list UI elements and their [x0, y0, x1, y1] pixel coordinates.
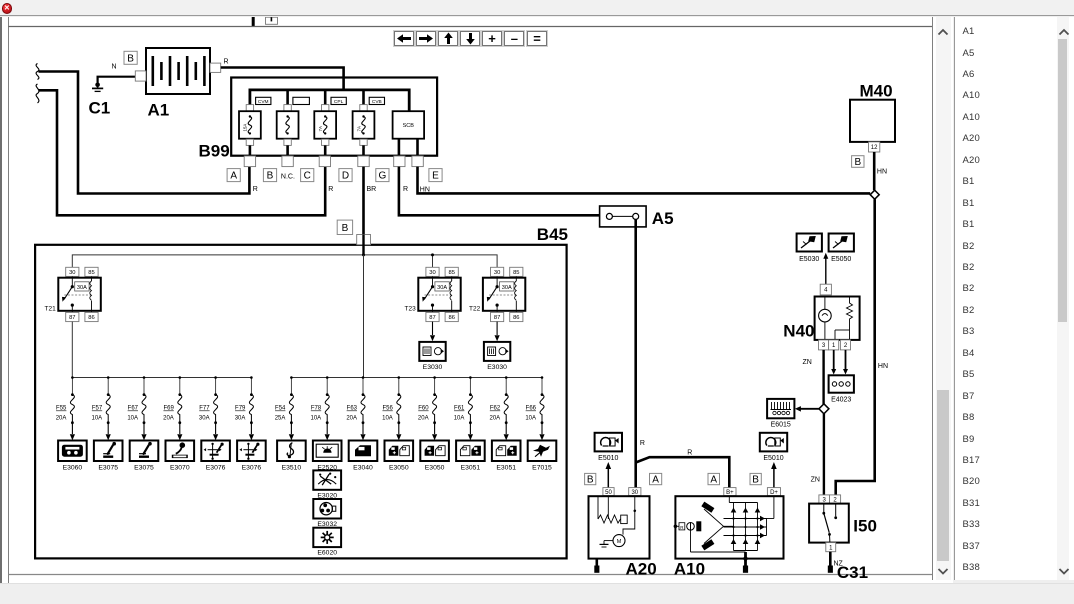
- wire stub below A20: [594, 559, 599, 573]
- svg-text:HN: HN: [878, 363, 888, 370]
- component E5030 (cigar lighter): [797, 234, 822, 252]
- wire - A20 pin 50 to E5010: [606, 462, 612, 488]
- label F79 30A: [235, 406, 246, 422]
- label F60 20A: [418, 406, 429, 422]
- svg-text:N: N: [112, 64, 117, 71]
- B99 output pin B: [282, 156, 293, 167]
- wire ZN - N40 pin 3 down: [822, 350, 824, 404]
- canvas inner border left: [8, 17, 9, 583]
- connector label B (A20): [585, 473, 596, 484]
- fuse F60 20A: [433, 376, 437, 424]
- svg-text:T21: T21: [45, 306, 57, 313]
- ground C1: [92, 83, 103, 92]
- wire/arrow F78 to E2520: [325, 423, 330, 441]
- starter motor A20: [589, 496, 650, 559]
- connector label G: [376, 169, 389, 182]
- B45 input pin (from B99 D): [357, 235, 371, 245]
- svg-text:30A: 30A: [199, 416, 210, 422]
- svg-text:C1: C1: [89, 99, 111, 118]
- fuse F77 30A: [214, 376, 218, 424]
- svg-text:E3075: E3075: [134, 465, 154, 472]
- svg-text:30A: 30A: [437, 285, 447, 291]
- svg-text:E7015: E7015: [532, 465, 552, 472]
- connector label B (A10): [750, 473, 761, 484]
- svg-text:87: 87: [429, 315, 435, 321]
- component list panel: [954, 17, 1074, 580]
- fuse F79 30A: [249, 376, 253, 424]
- svg-text:10A: 10A: [311, 416, 322, 422]
- component E3050 (fuse F56): [385, 441, 414, 462]
- svg-text:B: B: [587, 475, 594, 486]
- svg-text:E3051: E3051: [461, 465, 481, 472]
- svg-text:M: M: [617, 539, 622, 545]
- wire/arrow F61 to E3051: [468, 423, 473, 441]
- wire R - B99 pin G to connector A5: [399, 167, 607, 216]
- relay T23: [418, 267, 460, 321]
- svg-text:F66: F66: [526, 406, 537, 412]
- connector label D: [339, 169, 352, 182]
- component E5050 (cigar lighter): [829, 234, 854, 252]
- fuse F66 10A: [540, 376, 544, 424]
- M40 pin 12: [869, 142, 880, 152]
- I50 pin 2: [830, 495, 841, 504]
- wire (clipped at top edge): [252, 17, 255, 27]
- svg-text:10A: 10A: [92, 416, 103, 422]
- svg-text:T23: T23: [405, 306, 417, 313]
- component E5010 (horn, left): [595, 433, 622, 452]
- wire R - A5 down to A20 pin 30: [634, 219, 637, 487]
- svg-text:D: D: [342, 171, 349, 182]
- wire break squiggle 2: [36, 84, 39, 103]
- svg-text:F77: F77: [199, 406, 210, 412]
- svg-text:B+: B+: [726, 490, 734, 496]
- svg-text:C: C: [304, 171, 311, 182]
- label CVB: [369, 97, 384, 105]
- wire/arrow F77 to E3076: [213, 423, 218, 441]
- component E7015 (fuse F66): [528, 441, 557, 462]
- svg-text:B: B: [267, 171, 274, 182]
- svg-text:E3075: E3075: [98, 465, 118, 472]
- component E3051 (fuse F62): [492, 441, 521, 462]
- svg-text:20A: 20A: [490, 416, 501, 422]
- svg-text:G: G: [379, 171, 387, 182]
- svg-text:12: 12: [871, 145, 878, 151]
- fuse F62 20A: [504, 376, 508, 424]
- wire NZ - I50 pin 1 to C31: [828, 552, 833, 573]
- component E3051 (fuse F61): [456, 441, 485, 462]
- close button icon: [2, 3, 13, 14]
- window left border: [0, 17, 2, 583]
- svg-text:R: R: [403, 186, 408, 193]
- svg-text:R: R: [328, 186, 333, 193]
- svg-text:E3510: E3510: [282, 465, 302, 472]
- wire stub below A10: [743, 552, 748, 573]
- svg-text:E3060: E3060: [63, 465, 83, 472]
- fuse/relay box B45: [35, 245, 567, 559]
- label F69 20A: [163, 406, 174, 422]
- wire R - branch to A10 pin B+: [636, 457, 730, 487]
- wire BR - B99 pin D to B45: [362, 167, 365, 235]
- switch I50: [809, 504, 849, 543]
- svg-text:CVB: CVB: [372, 99, 382, 105]
- svg-text:30: 30: [69, 270, 75, 276]
- svg-text:R: R: [253, 186, 258, 193]
- B45 internal top bus: [72, 253, 497, 267]
- svg-text:E3050: E3050: [389, 465, 409, 472]
- label CVM: [256, 97, 271, 105]
- label F63 20A: [346, 406, 357, 422]
- svg-text:F60: F60: [418, 406, 429, 412]
- B99 output pin D: [358, 156, 369, 167]
- svg-text:87: 87: [494, 315, 500, 321]
- wire N - battery A1 to ground C1: [98, 77, 136, 85]
- B99 output pin C: [319, 156, 330, 167]
- svg-text:30A: 30A: [502, 285, 512, 291]
- label box (blank): [293, 97, 310, 104]
- wire break squiggle: [36, 64, 39, 80]
- svg-text:A: A: [710, 475, 717, 486]
- svg-text:10A: 10A: [127, 416, 138, 422]
- label F66 10A: [525, 406, 536, 422]
- fuse F78 10A: [325, 376, 329, 424]
- wire/arrow F56 to E3050: [396, 423, 401, 441]
- svg-text:87: 87: [69, 315, 75, 321]
- svg-text:R: R: [640, 440, 645, 447]
- component E3020 (wiper motor): [313, 470, 341, 489]
- module SCB: [393, 111, 425, 156]
- svg-text:50: 50: [605, 490, 612, 496]
- fuse F63 20A: [361, 376, 365, 424]
- wire/arrow F57 to E3075: [106, 423, 111, 441]
- svg-text:85: 85: [448, 270, 454, 276]
- label F67 10A: [127, 406, 138, 422]
- N40 pin 2: [840, 340, 850, 350]
- svg-text:C31: C31: [837, 563, 868, 582]
- label F57 10A: [92, 406, 103, 422]
- svg-text:86: 86: [448, 315, 454, 321]
- fuse F67 10A: [142, 376, 146, 424]
- svg-text:20A: 20A: [163, 416, 174, 422]
- svg-text:25A: 25A: [275, 416, 286, 422]
- wire/arrow F63 to E3040: [360, 423, 365, 441]
- svg-text:86: 86: [513, 315, 519, 321]
- fuse B99-1 15A: [239, 105, 261, 156]
- svg-text:10A: 10A: [382, 416, 393, 422]
- wire color labels under B99: [253, 186, 430, 194]
- svg-text:30: 30: [631, 490, 638, 496]
- svg-text:M40: M40: [860, 82, 893, 101]
- diamond junction (ZN): [819, 404, 829, 414]
- label CPL: [331, 97, 346, 105]
- svg-text:F79: F79: [235, 406, 246, 412]
- B99 output pin G: [394, 156, 405, 167]
- svg-text:B99: B99: [199, 142, 230, 161]
- svg-text:E5010: E5010: [598, 455, 618, 462]
- connector label A: [227, 169, 240, 182]
- toolbar pan/zoom buttons: [394, 31, 414, 46]
- svg-text:B: B: [342, 223, 349, 234]
- wire - B45 bus down to right fuse bus: [363, 255, 365, 378]
- wires - N40 pins 1,2 to connector E4023: [831, 350, 848, 375]
- fuse B99-3 7A: [314, 105, 336, 156]
- svg-text:85: 85: [88, 270, 94, 276]
- component E3040 (fuse F63): [349, 441, 378, 462]
- wire - T21 pin 87 to left fuse bus: [71, 322, 73, 378]
- svg-text:F69: F69: [163, 406, 174, 412]
- fuse F55 20A: [70, 376, 74, 424]
- right fuse bus: [291, 377, 542, 379]
- A10 pin B+: [724, 488, 736, 496]
- wire/arrow F62 to E3051: [504, 423, 509, 441]
- svg-text:20A: 20A: [346, 416, 357, 422]
- svg-text:I50: I50: [853, 517, 877, 536]
- component E3075 (fuse F67): [130, 441, 159, 462]
- list scrollbar: [1057, 17, 1069, 580]
- relay T22: [483, 267, 525, 321]
- label F78 10A: [311, 406, 322, 422]
- canvas inner border right: [932, 17, 933, 580]
- svg-text:E6020: E6020: [317, 550, 337, 557]
- schematic sheet frame line (bottom): [8, 574, 932, 576]
- connector label E: [429, 169, 442, 182]
- B99 output pin E: [412, 156, 423, 167]
- svg-text:F67: F67: [128, 406, 139, 412]
- svg-text:A1: A1: [148, 101, 170, 120]
- svg-text:HN: HN: [877, 169, 887, 176]
- svg-text:E3040: E3040: [353, 465, 373, 472]
- N40 pin 1: [829, 340, 839, 350]
- fuse F57 10A: [106, 376, 110, 424]
- svg-text:E3030: E3030: [423, 364, 443, 371]
- svg-text:7A: 7A: [318, 126, 323, 131]
- svg-text:F57: F57: [92, 406, 103, 412]
- svg-text:B45: B45: [537, 225, 568, 244]
- component E3075 (fuse F57): [94, 441, 123, 462]
- A20 pin 30: [629, 488, 641, 496]
- wire HN - M40 pin 12 to diamond junction: [873, 152, 876, 190]
- wire - N40 pin 4 up to E5030/E5050: [825, 258, 827, 284]
- wire/arrow F54 to E3510: [289, 423, 294, 441]
- svg-text:E6015: E6015: [771, 422, 791, 429]
- N40 pin 4: [820, 284, 831, 295]
- schematic sheet frame line (top): [8, 26, 932, 28]
- svg-text:R: R: [224, 59, 229, 66]
- connector label B (B45 feed): [337, 220, 352, 234]
- svg-text:BR: BR: [367, 186, 377, 193]
- B99 internal bus bar: [250, 90, 409, 111]
- component E3076 (fuse F77): [201, 441, 230, 462]
- module N40 (heater fan): [815, 297, 860, 340]
- label F54 25A: [275, 406, 286, 422]
- main vertical scrollbar: [936, 17, 951, 580]
- label F77 30A: [199, 406, 210, 422]
- wire ZN - diamond to I50 pin 3: [823, 414, 825, 495]
- svg-text:20A: 20A: [56, 416, 67, 422]
- svg-text:E3051: E3051: [496, 465, 516, 472]
- fuse F56 10A: [397, 376, 401, 424]
- connector label box B (battery): [124, 51, 137, 64]
- svg-text:A10: A10: [674, 560, 705, 579]
- connector A5: [600, 206, 647, 227]
- svg-text:A20: A20: [626, 560, 657, 579]
- module M40: [850, 100, 895, 142]
- component E3030 (below T22): [484, 342, 510, 361]
- component E3510 (fuse F54): [277, 441, 306, 462]
- svg-text:T22: T22: [469, 306, 481, 313]
- fuse B99-4 7A: [353, 105, 375, 156]
- component E3050 (fuse F60): [420, 441, 449, 462]
- svg-text:ZN: ZN: [802, 359, 811, 366]
- svg-text:30: 30: [494, 270, 500, 276]
- svg-text:F78: F78: [311, 406, 322, 412]
- connector label A (A20): [650, 473, 662, 484]
- svg-text:D+: D+: [770, 490, 778, 496]
- svg-text:E5010: E5010: [763, 455, 783, 462]
- wire/arrow F79 to E3076: [249, 423, 254, 441]
- svg-text:7A: 7A: [356, 126, 361, 131]
- component E3032 (washer pump): [313, 499, 341, 519]
- connector E4023: [829, 375, 854, 392]
- svg-text:10A: 10A: [454, 416, 465, 422]
- svg-text:ZN: ZN: [811, 477, 820, 484]
- svg-text:20A: 20A: [418, 416, 429, 422]
- window title bar: [0, 0, 1074, 16]
- svg-text:15A: 15A: [243, 124, 248, 132]
- left fuse bus: [72, 377, 251, 379]
- svg-text:F55: F55: [56, 406, 67, 412]
- svg-text:B: B: [127, 53, 134, 64]
- svg-text:A: A: [652, 475, 659, 486]
- svg-text:E3076: E3076: [242, 465, 262, 472]
- svg-text:86: 86: [88, 315, 94, 321]
- wire - T23 pin 87 to E3030: [430, 322, 435, 342]
- svg-text:30A: 30A: [235, 416, 246, 422]
- component E6020 (A/C compressor): [313, 528, 341, 547]
- label F56 10A: [382, 406, 393, 422]
- relay T21: [58, 267, 101, 321]
- label F61 10A: [454, 406, 465, 422]
- wire - B45 input to internal bus: [362, 235, 364, 256]
- wire R - battery A1 to B99 supply bus: [221, 68, 344, 91]
- wire - T22 pin 87 to E3030: [495, 322, 500, 342]
- component E6015 (glow plugs): [767, 399, 794, 418]
- connector label C: [301, 169, 314, 182]
- svg-text:E3070: E3070: [170, 465, 190, 472]
- B99 output pin A: [244, 156, 255, 167]
- svg-text:A: A: [230, 171, 237, 182]
- connector label A (A10): [708, 473, 720, 484]
- diamond junction (HN): [870, 190, 879, 199]
- wire/arrow F69 to E3070: [177, 423, 182, 441]
- N40 pin 3: [819, 340, 829, 350]
- connector label B (M40): [852, 156, 864, 168]
- wire/arrow F55 to E3060: [70, 423, 75, 441]
- svg-text:F62: F62: [490, 406, 501, 412]
- wire/arrow to E6015: [795, 406, 819, 412]
- svg-text:R: R: [687, 450, 692, 457]
- battery pin (right): [210, 63, 221, 72]
- battery pin (left): [135, 71, 146, 81]
- wire/arrow F66 to E7015: [539, 423, 544, 441]
- component E5010 (horn, right): [760, 433, 787, 452]
- svg-text:F56: F56: [382, 406, 393, 412]
- component E2520 (fuse F78): [313, 441, 342, 462]
- alternator A10: [674, 496, 784, 559]
- I50 pin 3: [819, 495, 830, 504]
- svg-text:CVM: CVM: [258, 99, 269, 105]
- svg-text:E: E: [432, 171, 439, 182]
- wire - A10 pin D+ to E5010: [771, 462, 777, 488]
- svg-text:10A: 10A: [525, 416, 536, 422]
- fuse F61 10A: [468, 376, 472, 424]
- fuse B99-2: [277, 105, 299, 156]
- svg-text:B: B: [752, 475, 759, 486]
- wire - off-page jag, runs to B99 pin C: [39, 90, 326, 215]
- component E3060 (fuse F55): [58, 441, 87, 462]
- bottom strip: [0, 583, 1074, 604]
- component E3076 (fuse F79): [237, 441, 266, 462]
- fuse F69 20A: [178, 376, 182, 424]
- I50 pin 1: [826, 543, 836, 552]
- fuse box B99: [231, 78, 437, 156]
- fuse F54 25A: [289, 376, 293, 424]
- svg-text:B: B: [854, 157, 861, 168]
- svg-text:E4023: E4023: [831, 397, 851, 404]
- svg-text:E5030: E5030: [799, 256, 819, 263]
- svg-text:E3050: E3050: [425, 465, 445, 472]
- svg-text:30: 30: [429, 270, 435, 276]
- wire - off-page jag to battery feed, runs to B99 pin A: [39, 72, 250, 194]
- wire HN - diamond down to I50 pin 2: [836, 199, 875, 495]
- svg-text:F54: F54: [275, 406, 286, 412]
- connector label B: [263, 169, 276, 182]
- label F62 20A: [490, 406, 501, 422]
- wire/arrow F60 to E3050: [432, 423, 437, 441]
- svg-text:E3076: E3076: [206, 465, 226, 472]
- A10 pin D+: [767, 488, 780, 496]
- A20 pin 50: [603, 488, 614, 496]
- wire/arrow F67 to E3075: [141, 423, 146, 441]
- svg-text:F63: F63: [347, 406, 358, 412]
- svg-text:E5050: E5050: [831, 256, 851, 263]
- svg-text:E3030: E3030: [487, 364, 507, 371]
- svg-text:A5: A5: [652, 209, 674, 228]
- svg-text:N40: N40: [783, 322, 814, 341]
- battery A1: [146, 48, 210, 94]
- svg-text:SCB: SCB: [403, 123, 415, 129]
- component E3030 (below T23): [419, 342, 445, 361]
- svg-text:N.C.: N.C.: [281, 174, 295, 181]
- svg-text:30A: 30A: [77, 285, 87, 291]
- label F55 20A: [56, 406, 67, 422]
- svg-text:F61: F61: [454, 406, 465, 412]
- component E3070 (fuse F69): [166, 441, 195, 462]
- svg-text:CPL: CPL: [334, 99, 344, 105]
- connector pin box (clipped at top edge): [266, 17, 278, 24]
- wire HN - B99 pin E to diamond junction: [418, 167, 871, 194]
- svg-text:85: 85: [513, 270, 519, 276]
